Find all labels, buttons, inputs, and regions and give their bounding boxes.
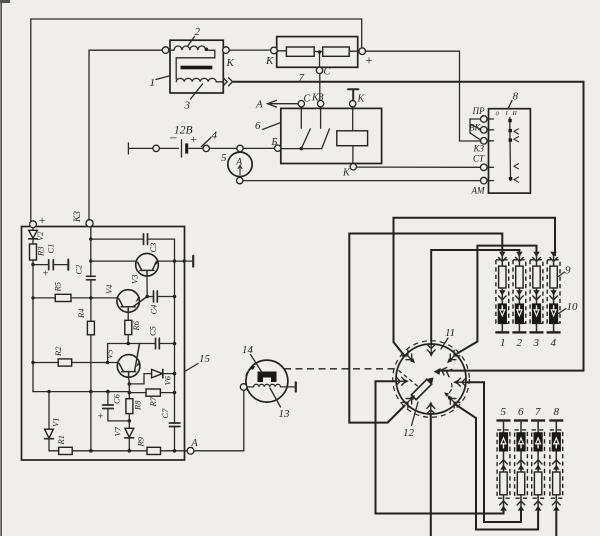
R7 row: [128, 384, 130, 399]
wire E electrode to plug 6: [466, 382, 522, 522]
wire battery row: [128, 147, 153, 149]
transistor V3: [136, 253, 159, 276]
switch box 6: [281, 108, 382, 163]
svg-text:Б: Б: [271, 137, 278, 148]
capacitor C2: [87, 275, 96, 277]
V3 emitter wire: [146, 276, 148, 297]
pickup sensor circle 13/14: [246, 360, 288, 402]
electrode E: [456, 378, 465, 386]
wire coil K to K3 bus: [89, 50, 162, 220]
electrode SE: [447, 396, 459, 408]
svg-text:R3: R3: [36, 247, 46, 257]
svg-text:V6: V6: [163, 375, 173, 385]
svg-text:R5: R5: [53, 282, 63, 292]
spark plug 3: [530, 252, 544, 333]
svg-text:2: 2: [517, 337, 523, 349]
pickup rotation arrow: [246, 368, 253, 376]
svg-text:К: К: [226, 57, 235, 69]
wire B row inside box6: [281, 148, 322, 150]
spark plug 8: [549, 421, 563, 511]
svg-text:С: С: [324, 67, 331, 78]
terminal KZ block8: [481, 138, 488, 145]
svg-text:9: 9: [565, 265, 571, 277]
wire plug 8 feed from bottom edge: [555, 508, 557, 536]
coil primary winding 2: [169, 46, 205, 50]
svg-text:C5: C5: [148, 326, 158, 336]
svg-text:C6: C6: [112, 393, 122, 404]
HV center electrode arrow: [440, 366, 452, 377]
resistor 7a: [286, 47, 314, 56]
svg-text:II: II: [512, 110, 518, 117]
svg-text:КЗ: КЗ: [473, 144, 485, 154]
diode V6: [152, 369, 163, 377]
V3 base row: [89, 259, 92, 262]
terminal coil left: [162, 47, 169, 54]
svg-text:C4: C4: [149, 304, 159, 315]
terminal PR: [481, 116, 488, 123]
svg-text:АМ: АМ: [471, 186, 485, 196]
resistor block 7 box: [277, 37, 358, 68]
resistor R7: [146, 389, 160, 396]
svg-text:5: 5: [501, 406, 507, 418]
svg-text:R6: R6: [131, 320, 141, 331]
svg-text:15: 15: [199, 353, 211, 365]
svg-text:R9: R9: [136, 436, 146, 447]
wire A terminal to pickup: [194, 390, 244, 451]
resistor R8: [126, 399, 133, 414]
wire W electrode to plug 5: [376, 381, 504, 513]
spark plug 4: [547, 252, 561, 333]
svg-text:C7: C7: [160, 408, 170, 419]
spark plug 5: [497, 421, 511, 511]
svg-text:5: 5: [221, 152, 227, 164]
coil secondary winding 3: [176, 78, 223, 81]
svg-text:+: +: [365, 53, 374, 68]
svg-text:СТ: СТ: [473, 154, 485, 164]
terminal K left of block7: [271, 47, 278, 54]
wire ST line to block8: [357, 166, 481, 168]
transistor V4: [117, 290, 140, 313]
terminal K box6 top: [350, 101, 356, 107]
bottom row with R1 R9: [49, 450, 59, 452]
svg-text:C2: C2: [74, 264, 84, 275]
pickup left terminal: [240, 384, 247, 391]
svg-text:V2: V2: [35, 231, 45, 241]
resistor R4 in bus: [87, 321, 94, 335]
svg-text:С: С: [304, 94, 311, 105]
ignition coil box 1: [170, 40, 223, 93]
electronic unit box 15: [22, 227, 185, 461]
svg-text:К3: К3: [73, 211, 83, 223]
svg-text:V1: V1: [51, 418, 61, 427]
rotation dashed arrow inside distributor: [447, 384, 452, 395]
wire SE electrode to plug 7: [456, 405, 539, 530]
wire HV line to right border and down to distributor: [233, 82, 584, 371]
svg-text:2: 2: [195, 26, 201, 38]
svg-text:+: +: [97, 412, 104, 423]
svg-text:0: 0: [496, 111, 500, 118]
terminal plus box15: [30, 221, 37, 228]
R5 row: [33, 297, 55, 299]
diode V2: [32, 228, 34, 231]
dashed link inside distributor to rotor: [399, 370, 419, 386]
spark plug 7: [531, 421, 545, 511]
wire run D: NE electrode to plug 3: [457, 246, 537, 354]
relay coil box6: [337, 131, 368, 146]
arrow A left of C: [268, 100, 299, 107]
svg-text:6: 6: [518, 406, 524, 418]
svg-text:3: 3: [533, 337, 540, 349]
terminal B: [275, 145, 281, 151]
svg-text:R7: R7: [148, 396, 158, 407]
svg-text:1: 1: [150, 77, 156, 89]
spark plug 2: [512, 252, 526, 333]
svg-text:V5: V5: [105, 350, 115, 359]
svg-text:R2: R2: [53, 346, 63, 357]
capacitor C4: [147, 296, 153, 298]
dashed drive link pickup to distributor: [284, 368, 397, 370]
svg-text:R1: R1: [56, 435, 66, 445]
wire run A: NW electrode to plug 4: [394, 218, 556, 356]
svg-text:10: 10: [567, 301, 579, 313]
coil core: [181, 66, 213, 70]
svg-text:13: 13: [279, 408, 291, 420]
connector block 8: [489, 109, 531, 193]
block8 internal switch line: [509, 118, 512, 181]
V5 emitter node: [128, 377, 131, 384]
svg-text:4: 4: [551, 337, 557, 349]
terminal VK: [481, 127, 488, 134]
svg-text:7: 7: [299, 72, 305, 84]
capacitor C7: [169, 422, 180, 424]
resistor R3: [32, 239, 34, 244]
terminal ST: [481, 164, 488, 171]
svg-text:К: К: [357, 94, 366, 105]
capacitor C5: [155, 338, 157, 349]
wire S electrode off bottom: [430, 413, 432, 536]
ammeter 5: [237, 145, 243, 151]
svg-text:+: +: [42, 269, 49, 280]
terminal AM: [481, 177, 488, 184]
node C tap: [319, 52, 321, 68]
terminal K3 box15: [86, 220, 93, 227]
resistor R2: [58, 359, 71, 366]
svg-text:−: −: [169, 132, 178, 147]
capacitor C3: [143, 234, 145, 245]
node R3 bottom: [31, 263, 34, 266]
svg-text:+: +: [190, 132, 198, 146]
top row to C3: [89, 237, 92, 240]
svg-text:ПР: ПР: [472, 106, 485, 116]
terminal C box6: [298, 101, 304, 107]
terminal plus right of block7: [359, 48, 366, 55]
wire K3 bus below C2: [90, 280, 92, 322]
V6 row: [129, 374, 151, 384]
pickup winding 13: [248, 384, 296, 387]
bottom rail row of box15: [33, 391, 129, 393]
electrode S: [427, 404, 435, 413]
wire inner right rail: [174, 239, 176, 423]
svg-text:А: А: [191, 438, 199, 449]
svg-text:V3: V3: [130, 275, 140, 284]
terminal K bottom box6: [350, 164, 356, 170]
chassis bar right of box15: [192, 256, 194, 267]
block8 contact triangles: [514, 129, 519, 134]
terminal A box15: [187, 447, 194, 454]
ignition key bar above K: [348, 89, 358, 100]
svg-text:R8: R8: [133, 400, 143, 411]
diode V7: [125, 428, 134, 437]
svg-text:3: 3: [184, 100, 191, 112]
electrode W: [396, 377, 405, 385]
capacitor C1: [33, 264, 49, 266]
wire run C: N electrode to plug 2: [431, 250, 519, 346]
wire run B: SW electrode to plug 1: [349, 234, 502, 423]
resistor R5: [55, 294, 71, 301]
svg-text:I: I: [505, 110, 509, 117]
V3 collector row to chassis: [158, 260, 193, 262]
scan border left edge: [0, 0, 2, 536]
svg-text:V7: V7: [113, 426, 123, 436]
wire top rail: [31, 19, 362, 221]
svg-text:C1: C1: [46, 244, 56, 254]
svg-text:А: А: [255, 99, 263, 111]
svg-text:+: +: [38, 213, 46, 227]
wire resistor links: [277, 50, 286, 52]
wire left bus of box15: [32, 260, 34, 392]
svg-text:1: 1: [500, 337, 506, 349]
wire PR-VK-KZ bracket: [470, 119, 481, 140]
svg-text:14: 14: [242, 344, 254, 356]
spark plug 1: [495, 252, 509, 333]
battery plates: [181, 140, 183, 157]
terminal KZ box6: [317, 101, 323, 107]
svg-text:К: К: [265, 55, 274, 67]
svg-text:А: А: [235, 158, 242, 168]
transistor V5: [117, 355, 140, 378]
switch contact KZ: [321, 107, 330, 149]
svg-text:8: 8: [554, 406, 560, 418]
battery terminals circles: [153, 145, 159, 151]
terminal coil right K: [223, 47, 230, 54]
wire C tap down to box6 KZ: [319, 74, 321, 101]
svg-text:8: 8: [513, 91, 519, 103]
HV chevron at coil output: [223, 78, 232, 86]
pickup magnet 14: [258, 372, 277, 383]
distributor body 11: [396, 344, 466, 414]
electrode NW: [402, 350, 414, 362]
svg-text:V4: V4: [104, 284, 114, 294]
electrode NE: [447, 350, 459, 362]
svg-text:R4: R4: [76, 308, 86, 319]
wire ammeter to AM terminal of block8: [243, 180, 481, 182]
switch contact C: [301, 107, 310, 149]
svg-text:6: 6: [255, 120, 261, 132]
svg-text:C3: C3: [148, 243, 158, 253]
diode V1 branch: [47, 390, 50, 393]
capacitor C6: [107, 392, 109, 405]
svg-text:КЗ: КЗ: [311, 93, 324, 104]
svg-text:ВК: ВК: [469, 123, 481, 133]
R2 row: [33, 362, 58, 364]
wire K3 bus: [90, 227, 92, 276]
electrode N: [427, 345, 435, 354]
electrode SW: [402, 396, 414, 408]
resistor 7b: [323, 47, 350, 56]
svg-text:7: 7: [535, 406, 541, 418]
spark plug 6: [514, 421, 528, 511]
svg-text:4: 4: [212, 130, 218, 142]
svg-text:К: К: [342, 168, 351, 179]
rotor 12: [411, 375, 436, 400]
svg-text:12: 12: [403, 427, 415, 439]
wire coil right to resistor block: [229, 49, 271, 51]
resistor R6: [127, 312, 129, 320]
wire plus terminal to block8 KZ: [366, 51, 481, 141]
wire C5 row to V5 base column: [107, 344, 109, 363]
C5 row: [108, 343, 156, 345]
svg-text:11: 11: [445, 327, 455, 339]
